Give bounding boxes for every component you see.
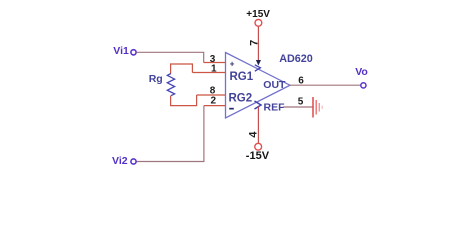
pin 7 arrowhead <box>256 60 261 66</box>
terminal Vo <box>361 83 366 88</box>
terminal Vi2 <box>131 159 136 164</box>
svg-text:RG1: RG1 <box>230 71 254 83</box>
svg-text:6: 6 <box>298 76 304 87</box>
svg-text:1: 1 <box>211 64 217 75</box>
svg-text:RG2: RG2 <box>229 93 253 105</box>
wire Rg bottom to pin 8 <box>171 95 197 106</box>
svg-text:Rg: Rg <box>149 73 163 85</box>
svg-text:Vi2: Vi2 <box>112 155 128 167</box>
pin 2 stub <box>204 105 226 107</box>
svg-text:+15V: +15V <box>246 9 270 20</box>
ground <box>313 97 322 118</box>
svg-text:OUT: OUT <box>263 79 286 91</box>
pin 3 stub <box>204 62 226 64</box>
svg-text:Vo: Vo <box>355 66 368 78</box>
wire Vi1 to pin 3 <box>136 52 203 62</box>
wire Rg top to pin 1 <box>171 64 193 74</box>
power terminal +15V <box>255 19 262 26</box>
pin 6 wire to Vo <box>290 84 361 86</box>
pin 8 stub <box>197 94 226 96</box>
svg-text:REF: REF <box>264 101 286 113</box>
pin 5 wire to ground <box>283 106 313 108</box>
svg-text:AD620: AD620 <box>279 53 313 65</box>
svg-text:7: 7 <box>249 40 261 46</box>
svg-text:Vi1: Vi1 <box>113 45 129 57</box>
svg-text:-15V: -15V <box>246 150 270 162</box>
minus input mark <box>229 108 234 110</box>
pin 7 chevron <box>255 65 261 71</box>
REF chevron <box>255 101 262 109</box>
svg-text:4: 4 <box>248 131 260 138</box>
svg-text:2: 2 <box>211 96 217 107</box>
wire Vi2 to pin 2 <box>136 106 204 162</box>
pin 1 stub <box>192 72 225 74</box>
resistor Rg <box>167 74 174 96</box>
svg-text:5: 5 <box>298 96 304 107</box>
terminal Vi1 <box>131 50 136 55</box>
wire +15V to pin 7 <box>257 26 259 61</box>
svg-text:+: + <box>230 59 235 68</box>
wire pin 4 to -15V <box>257 107 259 144</box>
op-amp U1 AD620 triangle <box>226 53 291 119</box>
power terminal -15V <box>255 143 262 150</box>
